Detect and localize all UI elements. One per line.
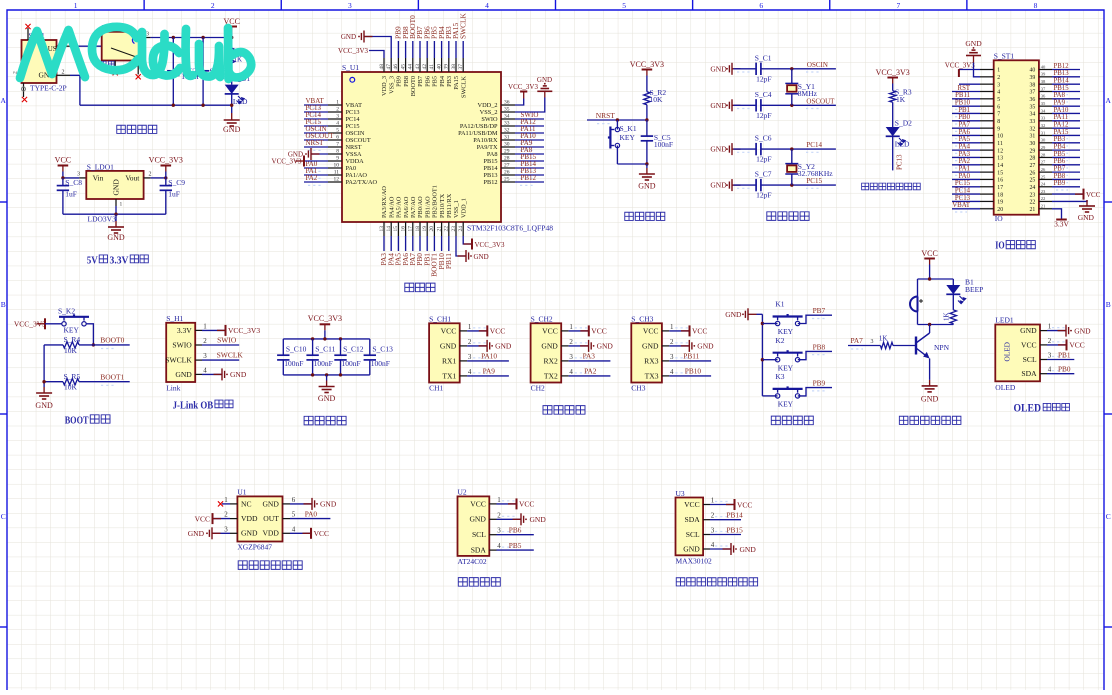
svg-text:4: 4 — [670, 368, 674, 376]
svg-text:S_K2: S_K2 — [58, 307, 75, 316]
svg-text:GND: GND — [710, 64, 727, 73]
svg-text:PB10: PB10 — [955, 100, 971, 107]
capacitor C5 100nF — [646, 120, 648, 136]
svg-text:34: 34 — [504, 113, 510, 119]
ground U1 VSSA — [311, 153, 328, 155]
svg-text:2: 2 — [711, 512, 715, 520]
svg-text:VCC_3V3: VCC_3V3 — [475, 241, 505, 249]
power VCC U1s out — [290, 532, 311, 534]
svg-text:27: 27 — [1030, 163, 1036, 169]
ground U3 — [710, 548, 731, 550]
wire net RST st1 — [952, 90, 980, 92]
CH1 pin 2 GND — [460, 345, 467, 347]
svg-text:GND: GND — [469, 515, 486, 524]
svg-text:TX3: TX3 — [645, 371, 659, 380]
wire net PA3 st1 — [952, 156, 980, 158]
svg-text:1: 1 — [203, 322, 207, 330]
svg-text:PB1: PB1 — [1058, 350, 1071, 359]
CH2 pin 2 GND — [561, 345, 568, 347]
wire net PC13 indicator — [892, 136, 894, 170]
sensor U1 XGZP6847 — [237, 496, 282, 541]
U1 pin 31 PA10/RX — [501, 139, 515, 141]
svg-text:19: 19 — [997, 200, 1003, 206]
wire net PC13 — [304, 111, 328, 113]
svg-text:VCC: VCC — [1021, 340, 1037, 349]
svg-text:24: 24 — [458, 226, 464, 232]
T1 pin 2 — [57, 74, 71, 76]
svg-text:38: 38 — [1030, 82, 1036, 88]
svg-text:14: 14 — [386, 226, 392, 232]
svg-text:OSCIN: OSCIN — [807, 61, 828, 69]
U1s pin 2 VDD — [230, 518, 237, 520]
svg-text:GND: GND — [683, 544, 700, 553]
svg-text:PB9: PB9 — [396, 76, 403, 87]
svg-text:PB6: PB6 — [509, 526, 522, 535]
svg-text:PA10: PA10 — [481, 352, 497, 361]
svg-text:2: 2 — [497, 511, 501, 519]
svg-text:PC13: PC13 — [346, 109, 360, 116]
CH1 pin 4 TX1 — [460, 375, 467, 377]
capacitor S_C11 100nF — [312, 339, 314, 355]
svg-text:1K: 1K — [879, 335, 888, 343]
svg-text:VCC: VCC — [195, 514, 210, 523]
svg-text:PA2/TX/AO: PA2/TX/AO — [346, 179, 378, 186]
ST1 pin 40 — [1039, 69, 1052, 71]
wire net PB0 — [419, 236, 421, 251]
capacitor C9 1uF — [165, 178, 167, 186]
svg-text:32.768KHz: 32.768KHz — [798, 169, 833, 178]
svg-text:4: 4 — [468, 368, 472, 376]
svg-text:PB0: PB0 — [1058, 365, 1071, 374]
CH3 pin 3 RX3 — [662, 360, 669, 362]
wire net PB7 — [419, 41, 421, 58]
svg-text:BOOT: BOOT — [65, 415, 89, 427]
svg-text:GND: GND — [530, 515, 547, 524]
svg-text:20: 20 — [997, 207, 1003, 213]
svg-text:PB2/BOOT1: PB2/BOOT1 — [432, 185, 439, 218]
svg-text:1: 1 — [74, 1, 78, 10]
wire net PB1 — [426, 236, 428, 251]
svg-text:33: 33 — [1041, 116, 1046, 121]
wire net PB3 st1 — [1052, 142, 1080, 144]
svg-text:18: 18 — [415, 226, 421, 232]
svg-text:S_K1: S_K1 — [620, 124, 637, 133]
svg-text:47: 47 — [386, 64, 392, 70]
svg-text:26: 26 — [1041, 167, 1046, 172]
U1 pin 10 PA0 — [328, 167, 342, 169]
svg-text:PB6: PB6 — [1054, 158, 1066, 165]
svg-text:14: 14 — [997, 163, 1003, 169]
power VCC_3V3 H1 — [202, 329, 225, 331]
svg-text:30: 30 — [504, 141, 510, 147]
svg-text:1: 1 — [120, 202, 123, 208]
svg-text:9: 9 — [336, 155, 339, 161]
svg-text:J-Link OB: J-Link OB — [173, 401, 214, 412]
svg-text:KEY: KEY — [778, 327, 794, 336]
wire net PA0 u1s — [290, 518, 330, 520]
svg-text:39: 39 — [1041, 72, 1046, 77]
U1 pin 13 PA3/RX/AO — [383, 222, 385, 236]
wire net PB6 — [426, 41, 428, 58]
wire net PB8 — [798, 351, 832, 359]
svg-text:NRST: NRST — [306, 139, 325, 147]
svg-text:VSS_2: VSS_2 — [480, 109, 498, 116]
svg-text:PA15: PA15 — [453, 76, 460, 90]
wire net PB3 — [448, 41, 450, 58]
wire net PB8 — [405, 41, 407, 58]
ST1 pin 13 — [980, 156, 994, 158]
svg-text:38: 38 — [451, 64, 457, 70]
svg-text:RST: RST — [958, 85, 971, 92]
ST1 pin 9 — [980, 127, 994, 129]
svg-text:42: 42 — [422, 64, 428, 70]
MCUclub logo — [20, 27, 251, 79]
wire net PB11 CH3 — [669, 360, 711, 362]
connector CH1 — [429, 323, 460, 382]
ground U1s right — [290, 503, 312, 505]
title main chip — [405, 283, 414, 292]
svg-text:PA7: PA7 — [959, 122, 971, 129]
crystal Y2 32.768KHz — [791, 149, 793, 164]
svg-text:VCC_3V3: VCC_3V3 — [308, 314, 342, 323]
svg-text:PB0/AO: PB0/AO — [417, 196, 424, 218]
wire net PA6 st1 — [952, 134, 980, 136]
svg-text:LED: LED — [895, 140, 910, 149]
svg-text:GND: GND — [1020, 326, 1037, 335]
ST1 pin 20 — [980, 208, 994, 210]
wire net PA2 — [304, 181, 328, 183]
wire net PC14 st1 — [952, 193, 980, 195]
svg-text:PA15: PA15 — [1054, 129, 1069, 136]
svg-text:3.3V: 3.3V — [177, 326, 192, 335]
wire net PA8 — [515, 153, 544, 155]
ST1 pin 35 — [1039, 105, 1052, 107]
svg-text:CH2: CH2 — [531, 384, 545, 393]
svg-text:30: 30 — [1041, 138, 1046, 143]
svg-text:MAX30102: MAX30102 — [676, 557, 713, 566]
svg-text:100nF: 100nF — [284, 359, 303, 368]
power VCC CH3 — [669, 330, 689, 332]
svg-text:VCC_3V3: VCC_3V3 — [149, 156, 183, 165]
svg-text:OLED: OLED — [1014, 402, 1042, 414]
svg-text:1uF: 1uF — [65, 190, 77, 199]
svg-text:GND: GND — [697, 342, 714, 351]
wire collector node — [918, 324, 954, 326]
svg-text:2: 2 — [149, 172, 152, 178]
svg-text:PA5/AO: PA5/AO — [396, 196, 403, 218]
svg-text:1: 1 — [569, 323, 573, 331]
H1 pin 1 3.3V — [195, 329, 202, 331]
svg-text:PC15: PC15 — [955, 180, 971, 187]
svg-text:CH3: CH3 — [631, 384, 645, 393]
U1 pin 19 PB1/AO — [426, 222, 428, 236]
svg-text:PB12: PB12 — [1054, 63, 1070, 70]
wire net PA5 st1 — [952, 142, 980, 144]
ST1 pin 18 — [980, 193, 994, 195]
U1 pin 16 PA6/AO — [405, 222, 407, 236]
wire net PA7 base — [848, 345, 880, 347]
wire net PA2 CH2 — [569, 375, 611, 377]
power 3.3V ST1 pin21 — [1052, 209, 1062, 220]
svg-text:25: 25 — [504, 176, 510, 182]
wire power bottom rail — [80, 104, 232, 106]
svg-text:K2: K2 — [775, 336, 784, 345]
svg-text:VCC: VCC — [55, 156, 71, 165]
U1 pin 42 PB6 — [426, 58, 428, 72]
svg-text:GND: GND — [107, 233, 125, 242]
wire net PB13 st1 — [1052, 76, 1080, 78]
wire net PB5 st1 — [1052, 156, 1080, 158]
wire net PA12 st1 — [1052, 127, 1080, 129]
svg-text:11: 11 — [997, 141, 1003, 147]
svg-text:BEEP: BEEP — [965, 285, 983, 294]
capacitor S_C12 100nF — [340, 339, 342, 355]
svg-text:S_C4: S_C4 — [755, 90, 772, 99]
svg-text:S_C13: S_C13 — [372, 345, 393, 354]
svg-text:PB4: PB4 — [1054, 144, 1066, 151]
svg-text:3: 3 — [997, 82, 1000, 88]
svg-text:RX2: RX2 — [543, 356, 558, 365]
svg-text:PB0: PB0 — [958, 114, 970, 121]
svg-text:PA7/AO: PA7/AO — [410, 196, 417, 218]
title alarm circuit — [899, 416, 908, 424]
CH3 pin 2 GND — [662, 345, 669, 347]
switch SW1 — [102, 32, 144, 61]
power VCC_3V3 U1 VDD_3 — [369, 51, 384, 59]
U1 pin 37 SWCLK — [462, 58, 464, 72]
svg-text:41: 41 — [429, 64, 435, 70]
svg-text:PB7: PB7 — [417, 76, 424, 87]
wire net PA10 CH1 — [467, 360, 509, 362]
svg-text:PA9: PA9 — [1054, 100, 1066, 107]
svg-text:VBAT: VBAT — [952, 202, 971, 209]
ST1 pin 11 — [980, 142, 994, 144]
connector H1 J-Link — [166, 323, 195, 382]
svg-text:PA0: PA0 — [959, 173, 971, 180]
svg-text:28: 28 — [1041, 152, 1046, 157]
svg-text:PB1: PB1 — [958, 107, 970, 114]
wire net PB6 u2 — [497, 534, 534, 536]
ground ST1 pin22 — [1052, 200, 1087, 201]
svg-text:PA0: PA0 — [305, 509, 318, 518]
svg-text:PB7: PB7 — [1054, 166, 1066, 173]
U3 pin 1 VCC — [703, 504, 710, 506]
svg-text:23: 23 — [1041, 189, 1046, 194]
ground CH1 — [467, 345, 487, 347]
svg-text:GND: GND — [262, 499, 279, 508]
wire net PA3 CH2 — [569, 360, 611, 362]
svg-text:VCC_3V3: VCC_3V3 — [945, 61, 975, 69]
svg-text:VCC: VCC — [519, 500, 534, 509]
wire net PA9 CH1 — [467, 375, 509, 377]
svg-text:10: 10 — [334, 162, 340, 168]
svg-text:43: 43 — [415, 64, 421, 70]
svg-text:19: 19 — [422, 226, 428, 232]
svg-text:35: 35 — [504, 106, 510, 112]
wire reset bottom — [617, 163, 647, 165]
svg-text:PA2: PA2 — [306, 174, 318, 182]
svg-text:PB4: PB4 — [439, 75, 446, 87]
svg-text:27: 27 — [1041, 160, 1046, 165]
U1 pin 41 PB5 — [433, 58, 435, 72]
ST1 pin 3 — [980, 83, 994, 85]
memory U2 AT24C02 — [458, 496, 490, 556]
svg-text:NC: NC — [241, 499, 252, 508]
svg-text:PB14: PB14 — [727, 511, 744, 520]
svg-text:SDA: SDA — [1021, 369, 1037, 378]
wire net PB8 st1 — [1052, 178, 1080, 180]
svg-text:VSS_3: VSS_3 — [388, 76, 395, 94]
wire net PB10 st1 — [952, 105, 980, 107]
svg-text:4: 4 — [1048, 366, 1052, 374]
svg-text:10: 10 — [997, 134, 1003, 140]
svg-text:8: 8 — [1034, 1, 1038, 10]
svg-text:TX1: TX1 — [442, 371, 456, 380]
svg-text:PA12/USB/DP: PA12/USB/DP — [460, 123, 498, 130]
U1 pin 8 VSSA — [328, 153, 342, 155]
wire net PC15 — [761, 184, 836, 186]
ST1 pin 29 — [1039, 149, 1052, 151]
CH3 pin 1 VCC — [662, 330, 669, 332]
svg-text:VCC: VCC — [684, 500, 700, 509]
connector CH3 — [631, 323, 662, 382]
svg-text:3.3V: 3.3V — [1054, 219, 1069, 228]
wire net PA7 st1 — [952, 127, 980, 129]
wire net PB10 — [441, 236, 443, 251]
svg-text:S_H1: S_H1 — [166, 314, 183, 323]
svg-text:PB12: PB12 — [484, 179, 498, 186]
svg-text:26: 26 — [1030, 170, 1036, 176]
svg-text:GND: GND — [725, 310, 742, 319]
connector ST1 IO header — [994, 60, 1039, 214]
wire net PA5 — [397, 236, 399, 251]
svg-text:32: 32 — [1041, 123, 1046, 128]
svg-text:GND: GND — [35, 401, 53, 410]
U1 pin 24 VDD_1 — [462, 222, 464, 236]
wire emitter to gnd — [929, 359, 931, 380]
svg-text:4: 4 — [997, 90, 1000, 96]
svg-text:VSS_1: VSS_1 — [453, 200, 460, 218]
svg-text:KEY: KEY — [620, 133, 636, 142]
svg-text:SWCLK: SWCLK — [165, 356, 192, 365]
svg-text:VCC: VCC — [314, 529, 329, 538]
LED1 pin 3 SCL — [1040, 359, 1047, 361]
resistor R3 1K — [890, 91, 896, 103]
svg-text:S_CH3: S_CH3 — [631, 315, 653, 324]
svg-text:S_D2: S_D2 — [895, 119, 912, 128]
svg-text:7: 7 — [997, 112, 1000, 118]
svg-text:21: 21 — [1030, 207, 1036, 213]
svg-text:VCC_3V3: VCC_3V3 — [228, 326, 260, 335]
wire filter top rail — [283, 338, 370, 340]
transistor Q1 NPN — [929, 325, 931, 334]
svg-text:36: 36 — [504, 99, 510, 105]
svg-text:PA10: PA10 — [1054, 107, 1069, 114]
resistor R2 10K — [644, 92, 650, 105]
ST1 pin 26 — [1039, 171, 1052, 173]
svg-text:6: 6 — [997, 104, 1000, 110]
U3 pin 2 SDA — [703, 519, 710, 521]
wire net PB9 — [798, 388, 832, 396]
title pressure module — [238, 561, 247, 570]
U1 pin 48 VDD_3 — [383, 58, 385, 72]
U1 pin 47 VSS_3 — [390, 58, 392, 72]
wire net BOOT1 — [433, 236, 435, 251]
U1 pin 23 VSS_1 — [455, 222, 457, 236]
ground alarm — [929, 380, 931, 386]
svg-text:PB10/TX: PB10/TX — [439, 193, 446, 218]
wire net OSCOUT — [304, 139, 328, 141]
svg-text:GND: GND — [230, 370, 247, 379]
ST1 pin 31 — [1039, 134, 1052, 136]
svg-text:CH1: CH1 — [429, 384, 443, 393]
U1 pin 22 PB11/RX — [448, 222, 450, 236]
wire ldo bottom rail — [63, 213, 166, 215]
wire net PB5 u2 — [497, 549, 534, 551]
svg-text:3: 3 — [77, 172, 80, 178]
svg-text:VCC: VCC — [1086, 191, 1101, 199]
svg-text:LDO3V3: LDO3V3 — [88, 215, 117, 224]
svg-text:23: 23 — [1030, 192, 1036, 198]
resistor R1 1K — [229, 48, 235, 66]
svg-text:NRST: NRST — [346, 144, 362, 151]
svg-text:S_R5: S_R5 — [64, 372, 81, 381]
svg-text:VDDA: VDDA — [346, 158, 365, 165]
svg-text:SWIO: SWIO — [172, 340, 192, 349]
svg-text:32: 32 — [504, 127, 510, 133]
U1 pin 11 PA1/AO — [328, 174, 342, 176]
svg-text:2: 2 — [997, 75, 1000, 81]
svg-text:2: 2 — [468, 338, 472, 346]
svg-text:1: 1 — [497, 496, 501, 504]
svg-text:PB9: PB9 — [813, 379, 826, 388]
ST1 pin 33 — [1039, 120, 1052, 122]
svg-text:2: 2 — [670, 338, 674, 346]
wire net NRST — [304, 146, 328, 148]
svg-text:PA3/RX/AO: PA3/RX/AO — [381, 186, 388, 218]
wire net PB6 st1 — [1052, 164, 1080, 166]
U1 pin 38 PA15 — [455, 58, 457, 72]
wire net PB14 u3 — [710, 519, 741, 521]
wire net PB10 CH3 — [669, 375, 711, 377]
wire net PB11 — [448, 236, 450, 251]
wire net PB7 — [798, 315, 832, 323]
svg-text:PB11: PB11 — [444, 253, 453, 269]
wire net SWIO — [515, 118, 544, 120]
svg-text:1K: 1K — [943, 312, 951, 321]
svg-text:12: 12 — [334, 176, 340, 182]
svg-text:16: 16 — [400, 226, 406, 232]
svg-text:VCC_3V3: VCC_3V3 — [508, 83, 538, 91]
U1 pin 2 PC13 — [328, 111, 342, 113]
wire net VBAT st1 — [952, 208, 980, 210]
svg-text:VSSA: VSSA — [346, 151, 363, 158]
svg-text:OSCIN: OSCIN — [346, 130, 365, 137]
title reset circuit — [625, 212, 634, 220]
wire net PA0 st1 — [952, 178, 980, 180]
capacitor S_C4 12pF — [734, 104, 757, 106]
svg-text:3: 3 — [146, 31, 149, 37]
svg-text:PA6/AO: PA6/AO — [403, 196, 410, 218]
U2 pin 1 VCC — [489, 503, 496, 505]
svg-text:PA8: PA8 — [1054, 92, 1066, 99]
wire net PA11 — [515, 132, 544, 134]
svg-text:PA10/RX: PA10/RX — [473, 137, 498, 144]
svg-text:9: 9 — [997, 126, 1000, 132]
svg-text:3: 3 — [497, 527, 501, 535]
svg-text:GND: GND — [440, 341, 457, 350]
svg-text:29: 29 — [1030, 148, 1036, 154]
